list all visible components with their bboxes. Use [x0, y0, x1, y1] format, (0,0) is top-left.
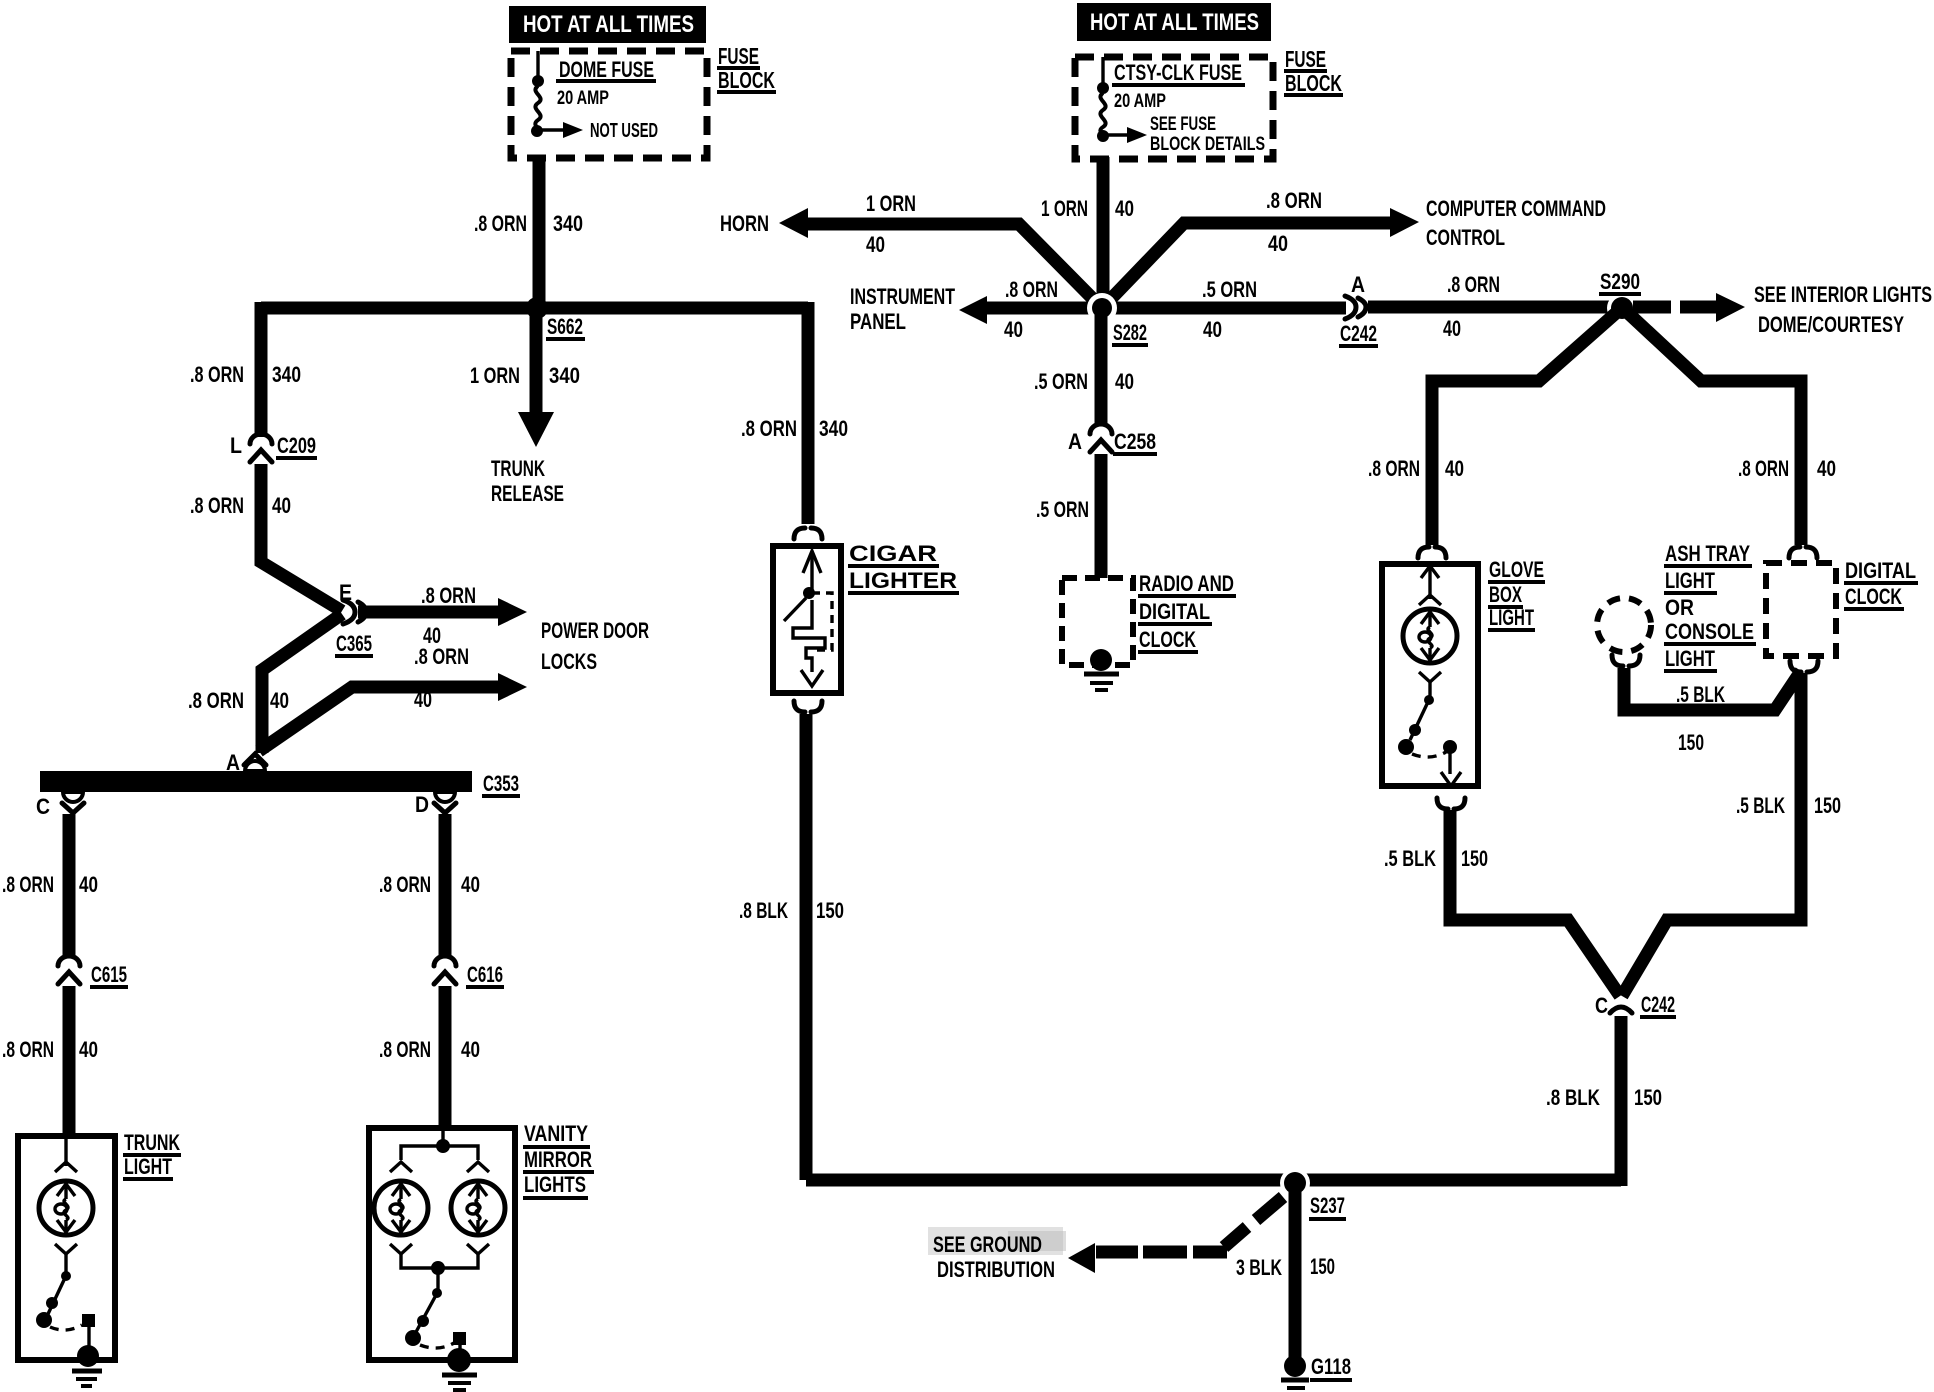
node dome fuse bottom terminal — [531, 125, 543, 137]
wire S290 to interior lights arrow — [1633, 301, 1719, 314]
connector cup digital clock top — [1789, 547, 1817, 558]
wire S237 down to G118 — [1289, 1190, 1302, 1358]
svg-text:.5 BLK: .5 BLK — [1736, 793, 1785, 818]
label CIGAR LIGHTER — [848, 541, 959, 593]
label FUSE BLOCK (right) — [1284, 46, 1343, 96]
svg-text:LIGHT: LIGHT — [1489, 605, 1534, 630]
svg-text:BLOCK: BLOCK — [1285, 70, 1342, 96]
label C258 — [1113, 429, 1157, 454]
ground trunk light — [72, 1345, 102, 1386]
svg-text:.8 ORN: .8 ORN — [379, 872, 431, 897]
svg-text:40: 40 — [1268, 231, 1288, 256]
svg-text:BLOCK: BLOCK — [718, 67, 775, 93]
connector C615 symbol — [58, 956, 80, 984]
wire NOT USED tap — [537, 128, 564, 131]
connector cup glove box top — [1418, 547, 1446, 558]
svg-text:.8 ORN: .8 ORN — [1266, 188, 1322, 213]
arrow head INSTRUMENT PANEL — [959, 296, 987, 324]
svg-text:C242: C242 — [1340, 321, 1377, 346]
wire S290 branch to digital clock — [1628, 313, 1801, 545]
svg-text:40: 40 — [79, 1037, 98, 1062]
label S290 — [1599, 269, 1641, 294]
arrow SEE FUSE BLOCK DETAILS — [1127, 127, 1147, 143]
label C365 — [335, 631, 373, 656]
svg-text:.8 ORN: .8 ORN — [1447, 272, 1500, 297]
svg-text:.8 ORN: .8 ORN — [741, 416, 797, 441]
svg-text:E: E — [339, 580, 352, 605]
svg-text:DOME FUSE: DOME FUSE — [559, 57, 654, 82]
wire S290 branch to glove box — [1432, 313, 1616, 545]
svg-text:DISTRIBUTION: DISTRIBUTION — [937, 1257, 1055, 1282]
label COMPUTER COMMAND CONTROL — [1426, 196, 1606, 250]
connector cup cigar lighter top — [794, 528, 822, 539]
digital clock dashed box — [1766, 563, 1836, 656]
svg-text:CONSOLE: CONSOLE — [1665, 619, 1754, 644]
fuse block (left, DOME FUSE) dashed box — [511, 51, 707, 158]
svg-text:PANEL: PANEL — [850, 309, 906, 334]
wire C365 branch down to A — [262, 614, 342, 753]
svg-text:A: A — [1351, 272, 1365, 297]
arrow head SEE INTERIOR LIGHTS — [1716, 293, 1745, 322]
wire vanity feed split — [401, 1131, 478, 1160]
connector cup glove box bottom — [1437, 798, 1465, 809]
svg-text:RADIO AND: RADIO AND — [1139, 571, 1234, 596]
svg-text:C: C — [1595, 993, 1608, 1018]
label INSTRUMENT PANEL — [850, 284, 955, 334]
ground vanity mirror lights — [442, 1348, 477, 1390]
wire C353-D down to C616 — [439, 814, 452, 958]
svg-text:150: 150 — [1634, 1085, 1662, 1110]
glove box light box — [1382, 564, 1478, 786]
arrow to TRUNK RELEASE — [518, 412, 554, 447]
svg-text:CIGAR: CIGAR — [849, 541, 937, 566]
wire instrument panel branch — [984, 302, 1094, 315]
svg-text:L: L — [230, 433, 242, 458]
label GLOVE BOX LIGHT — [1488, 557, 1545, 630]
label C242 (bottom) — [1640, 992, 1676, 1017]
connector cup ash tray bottom — [1612, 655, 1640, 666]
wire horn branch — [797, 224, 1098, 304]
svg-text:.8 ORN: .8 ORN — [379, 1037, 431, 1062]
svg-text:40: 40 — [1004, 317, 1023, 342]
svg-text:.8 ORN: .8 ORN — [188, 688, 244, 713]
label TRUNK RELEASE — [491, 456, 564, 506]
svg-text:.5 BLK: .5 BLK — [1384, 846, 1436, 871]
svg-text:DOME/COURTESY: DOME/COURTESY — [1758, 312, 1904, 337]
connector C616 symbol — [434, 956, 456, 984]
svg-text:SEE GROUND: SEE GROUND — [933, 1232, 1042, 1257]
fuse element CTSY-CLK FUSE 20 AMP — [1100, 93, 1105, 135]
connector D on C353 — [434, 792, 456, 813]
svg-text:20 AMP: 20 AMP — [557, 88, 609, 109]
svg-text:S662: S662 — [547, 314, 583, 339]
connector C365 symbol — [343, 600, 366, 624]
wire digital clock down to C242 — [1622, 673, 1801, 996]
svg-text:.8 BLK: .8 BLK — [1546, 1085, 1600, 1110]
wire main horizontal bus at y308 — [261, 302, 808, 315]
junction S290 — [1607, 293, 1637, 323]
svg-text:340: 340 — [819, 416, 848, 441]
fuse element DOME FUSE 20 AMP — [535, 86, 540, 130]
svg-text:.8 ORN: .8 ORN — [190, 362, 244, 387]
label C353 — [482, 771, 520, 796]
label TRUNK LIGHT — [123, 1130, 181, 1179]
wire C353-C down to C615 — [63, 814, 76, 958]
svg-text:FUSE: FUSE — [1285, 46, 1326, 72]
arrow head power door locks upper — [498, 598, 527, 626]
svg-text:340: 340 — [272, 362, 301, 387]
svg-text:40: 40 — [414, 687, 432, 712]
svg-text:ASH TRAY: ASH TRAY — [1665, 541, 1750, 566]
svg-text:HORN: HORN — [720, 211, 769, 236]
svg-text:40: 40 — [1203, 317, 1222, 342]
wire SEE FUSE tap — [1103, 133, 1128, 136]
svg-text:C353: C353 — [483, 771, 519, 796]
label C615 — [90, 962, 128, 987]
node ctsy-clk fuse bottom terminal — [1097, 130, 1109, 142]
svg-text:LIGHT: LIGHT — [124, 1154, 172, 1179]
label C242 (top) — [1339, 321, 1378, 346]
svg-text:1 ORN: 1 ORN — [866, 191, 916, 216]
node ctsy-clk fuse top terminal — [1097, 82, 1109, 94]
label VANITY MIRROR LIGHTS — [523, 1121, 594, 1198]
svg-text:G118: G118 — [1311, 1354, 1351, 1379]
ground G118 — [1281, 1355, 1309, 1388]
junction S662 — [526, 297, 548, 319]
svg-text:NOT USED: NOT USED — [590, 120, 658, 142]
wire left drop from bus to C209 — [255, 302, 268, 437]
svg-text:RELEASE: RELEASE — [491, 481, 564, 506]
wire glove box down to C242 — [1450, 810, 1620, 996]
svg-text:1 ORN: 1 ORN — [1041, 196, 1088, 221]
ash tray light dashed lamp — [1597, 598, 1651, 652]
connector C on C353 — [62, 792, 84, 813]
svg-text:C258: C258 — [1114, 429, 1156, 454]
lamp vanity right bulb — [451, 1162, 505, 1254]
label DIGITAL CLOCK — [1844, 558, 1918, 609]
wire from hot feed into dome fuse — [536, 51, 539, 80]
svg-text:.8 ORN: .8 ORN — [1368, 456, 1420, 481]
ground radio and digital clock — [1084, 649, 1119, 690]
wire C258 down to radio — [1095, 454, 1108, 578]
svg-text:CLOCK: CLOCK — [1139, 627, 1196, 652]
cigar lighter element internals — [784, 551, 832, 686]
svg-text:OR: OR — [1665, 595, 1694, 620]
label S662 — [546, 314, 585, 339]
wire arrow power door locks lower — [259, 687, 502, 751]
lamp trunk light bulb — [39, 1139, 93, 1272]
svg-text:40: 40 — [79, 872, 98, 897]
svg-text:40: 40 — [461, 872, 480, 897]
switch vanity mirror lights — [405, 1268, 466, 1356]
svg-text:LIGHTS: LIGHTS — [524, 1172, 586, 1197]
svg-text:150: 150 — [1678, 730, 1704, 755]
svg-text:S282: S282 — [1113, 320, 1147, 345]
svg-text:SEE FUSE: SEE FUSE — [1150, 114, 1216, 135]
svg-text:MIRROR: MIRROR — [524, 1147, 592, 1172]
svg-text:20 AMP: 20 AMP — [1114, 91, 1166, 112]
svg-text:C: C — [36, 794, 50, 819]
svg-text:1 ORN: 1 ORN — [470, 363, 520, 388]
svg-text:40: 40 — [1445, 456, 1464, 481]
wire ash tray to clock ground run — [1624, 668, 1801, 710]
svg-text:340: 340 — [549, 363, 580, 388]
connector C258 symbol — [1090, 424, 1112, 452]
connector C209 symbol — [250, 434, 272, 462]
bus bar C353 — [40, 771, 472, 792]
label ASH TRAY LIGHT OR CONSOLE LIGHT — [1664, 541, 1756, 671]
svg-text:.8 ORN: .8 ORN — [2, 1037, 54, 1062]
connector cup cigar lighter bottom — [794, 701, 822, 712]
svg-text:CONTROL: CONTROL — [1426, 225, 1505, 250]
svg-text:40: 40 — [461, 1037, 480, 1062]
svg-text:A: A — [1068, 429, 1082, 454]
trunk light box — [18, 1136, 115, 1360]
switch trunk light — [36, 1271, 95, 1352]
wire arrow power door locks upper — [358, 606, 502, 619]
label S282 — [1112, 320, 1148, 345]
arrow NOT USED — [563, 122, 583, 138]
svg-text:150: 150 — [816, 898, 844, 923]
wire C615 down to trunk light — [63, 986, 76, 1136]
svg-text:HOT AT ALL TIMES: HOT AT ALL TIMES — [523, 11, 694, 38]
svg-text:C365: C365 — [336, 631, 372, 656]
svg-text:SEE INTERIOR LIGHTS: SEE INTERIOR LIGHTS — [1754, 282, 1932, 307]
svg-text:DIGITAL: DIGITAL — [1845, 558, 1916, 583]
wire dome fuse output down to S662 — [533, 156, 546, 308]
svg-text:CTSY-CLK FUSE: CTSY-CLK FUSE — [1114, 60, 1242, 85]
svg-text:POWER DOOR: POWER DOOR — [541, 618, 649, 643]
svg-text:D: D — [415, 792, 429, 817]
wire computer command branch — [1106, 223, 1396, 304]
svg-text:GLOVE: GLOVE — [1489, 557, 1544, 582]
arrow head SEE GROUND DISTRIBUTION — [1068, 1243, 1095, 1273]
wire S282 down to C258 — [1095, 308, 1108, 425]
wire cigar lighter down to bottom bus — [800, 714, 813, 1180]
svg-text:CLOCK: CLOCK — [1845, 584, 1902, 609]
svg-text:HOT AT ALL TIMES: HOT AT ALL TIMES — [1090, 9, 1259, 36]
label SEE GROUND DISTRIBUTION — [928, 1227, 1066, 1282]
wire S662 down to trunk release — [530, 308, 543, 414]
svg-text:.5 ORN: .5 ORN — [1202, 277, 1257, 302]
svg-text:DIGITAL: DIGITAL — [1139, 599, 1210, 624]
connector C242 A symbol — [1345, 296, 1366, 319]
connector C242 C symbol — [1610, 1007, 1632, 1013]
label POWER DOOR LOCKS — [541, 618, 649, 674]
svg-text:C616: C616 — [467, 962, 503, 987]
svg-text:3 BLK: 3 BLK — [1236, 1255, 1282, 1280]
wire S282 to C242 — [1102, 302, 1346, 315]
svg-text:BOX: BOX — [1489, 582, 1522, 607]
arrow head power door locks lower — [498, 673, 527, 701]
svg-text:LIGHTER: LIGHTER — [849, 568, 957, 593]
wire dashed to ground distribution — [1096, 1197, 1283, 1252]
wire bus corner down to cigar lighter — [802, 302, 815, 524]
svg-text:.5 BLK: .5 BLK — [1676, 682, 1725, 707]
banner HOT AT ALL TIMES (right) — [1077, 3, 1271, 41]
svg-text:.5 ORN: .5 ORN — [1036, 497, 1089, 522]
junction S237 — [1280, 1168, 1310, 1198]
svg-text:BLOCK DETAILS: BLOCK DETAILS — [1150, 134, 1265, 155]
lamp vanity left bulb — [374, 1162, 428, 1254]
svg-text:VANITY: VANITY — [524, 1121, 588, 1146]
wire hot feed into ctsy-clk fuse — [1101, 57, 1104, 86]
switch glove box light — [1398, 695, 1461, 786]
svg-text:C615: C615 — [91, 962, 127, 987]
svg-text:FUSE: FUSE — [718, 43, 759, 69]
svg-text:.8 ORN: .8 ORN — [190, 493, 244, 518]
svg-text:.8 ORN: .8 ORN — [421, 583, 476, 608]
connector A on C353 — [244, 754, 266, 771]
svg-text:INSTRUMENT: INSTRUMENT — [850, 284, 955, 309]
svg-text:40: 40 — [1115, 196, 1134, 221]
svg-text:40: 40 — [1817, 456, 1836, 481]
radio and digital clock dashed box — [1062, 578, 1133, 665]
vanity mirror lights box — [369, 1128, 515, 1360]
connector cup digital clock bottom — [1790, 661, 1818, 672]
node dome fuse top terminal — [532, 75, 544, 87]
svg-text:150: 150 — [1310, 1254, 1335, 1279]
banner HOT AT ALL TIMES (left) — [509, 6, 706, 43]
svg-text:LOCKS: LOCKS — [541, 649, 597, 674]
label RADIO AND DIGITAL CLOCK — [1138, 571, 1236, 652]
svg-text:40: 40 — [1443, 316, 1461, 341]
wire C616 down to vanity mirror lights — [439, 986, 452, 1128]
svg-text:COMPUTER COMMAND: COMPUTER COMMAND — [1426, 196, 1606, 221]
svg-text:S237: S237 — [1310, 1193, 1345, 1218]
svg-text:.8 ORN: .8 ORN — [1005, 277, 1058, 302]
svg-text:40: 40 — [866, 232, 885, 257]
label C209 — [276, 433, 317, 458]
cigar lighter box — [773, 546, 841, 693]
svg-text:C242: C242 — [1641, 992, 1675, 1017]
svg-text:C209: C209 — [277, 433, 316, 458]
wire C242 to S290 — [1368, 301, 1612, 314]
svg-text:.8 ORN: .8 ORN — [474, 211, 527, 236]
svg-text:.5 ORN: .5 ORN — [1034, 369, 1088, 394]
wire bottom ground bus — [806, 1174, 1621, 1187]
svg-text:340: 340 — [553, 211, 583, 236]
arrow head HORN — [779, 208, 808, 238]
svg-text:.8 ORN: .8 ORN — [414, 644, 469, 669]
svg-text:40: 40 — [272, 493, 291, 518]
wire C242 down to bottom bus — [1615, 1016, 1628, 1186]
svg-text:S290: S290 — [1600, 269, 1640, 294]
svg-text:40: 40 — [1115, 369, 1134, 394]
fuse block (right, CTSY-CLK FUSE) dashed box — [1075, 57, 1273, 159]
svg-text:40: 40 — [270, 688, 289, 713]
arrow head COMPUTER COMMAND CONTROL — [1390, 208, 1419, 237]
wire C209 down to C365 branch — [261, 464, 342, 611]
svg-text:LIGHT: LIGHT — [1665, 646, 1715, 671]
svg-text:150: 150 — [1461, 846, 1488, 871]
label G118 — [1310, 1354, 1352, 1380]
wire vanity lamps join — [401, 1252, 478, 1275]
svg-text:.8 ORN: .8 ORN — [1738, 456, 1789, 481]
wire ctsy fuse output down to S282 — [1097, 157, 1110, 308]
lamp glove box bulb — [1403, 566, 1457, 696]
svg-text:TRUNK: TRUNK — [124, 1130, 180, 1155]
label S237 — [1309, 1193, 1346, 1219]
svg-text:TRUNK: TRUNK — [491, 456, 545, 481]
svg-text:.8 ORN: .8 ORN — [2, 872, 54, 897]
label FUSE BLOCK (left) — [717, 43, 776, 93]
label SEE INTERIOR LIGHTS — [1754, 282, 1932, 337]
svg-text:.8 BLK: .8 BLK — [739, 898, 788, 923]
svg-text:LIGHT: LIGHT — [1665, 568, 1715, 593]
svg-text:150: 150 — [1814, 793, 1841, 818]
label C616 — [466, 962, 504, 987]
junction S282 — [1087, 293, 1117, 323]
